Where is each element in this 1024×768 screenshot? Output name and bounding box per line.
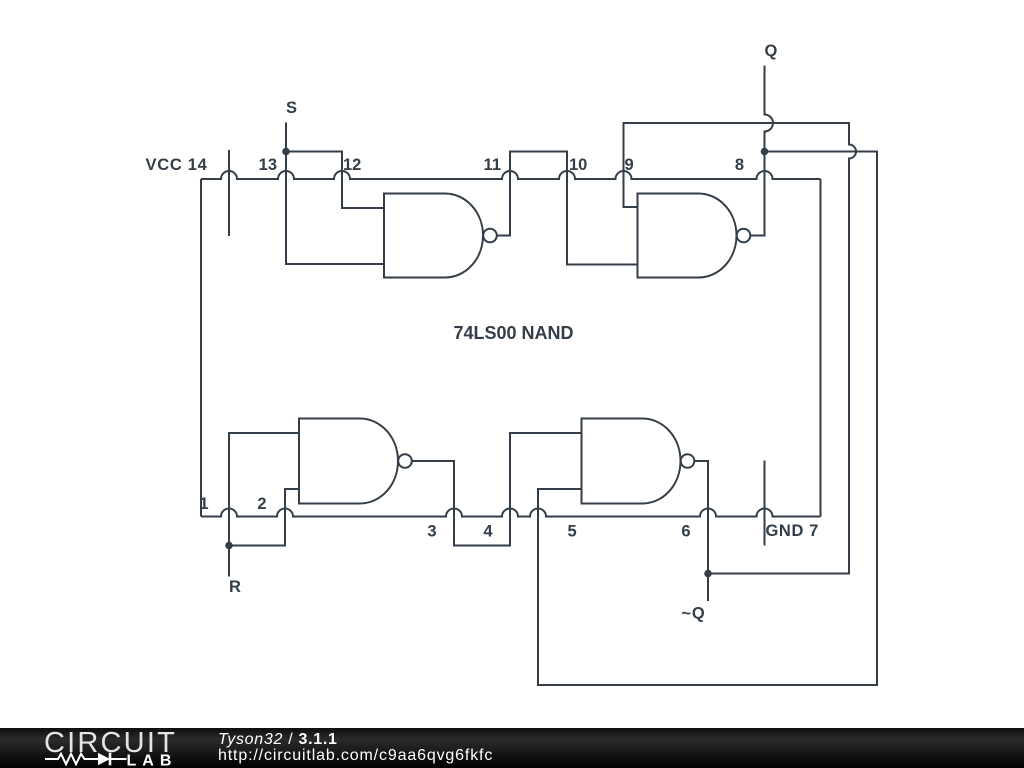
IC U1 package outline: right edge <box>820 179 822 517</box>
junction node R at pin 1 <box>225 542 233 550</box>
svg-text:13: 13 <box>259 156 277 174</box>
footer title text <box>218 732 338 748</box>
junction node S at pin 13 <box>282 148 290 156</box>
wire U1A output to pin 11, over to pin 10, down to U1B lower input <box>497 152 638 265</box>
svg-text:2: 2 <box>257 495 266 513</box>
NAND gate U1C output bubble <box>398 454 412 468</box>
svg-text:10: 10 <box>569 156 587 174</box>
wire S junction over to pin 12 and U1A upper input <box>286 152 384 209</box>
svg-text:8: 8 <box>735 156 744 174</box>
svg-text:VCC 14: VCC 14 <box>146 156 208 174</box>
footer bar <box>0 728 1024 768</box>
svg-text:6: 6 <box>681 523 690 541</box>
svg-text:R: R <box>229 578 241 596</box>
NAND gate U1B output bubble <box>737 229 751 243</box>
wire ~Q feedback right side up to pin 9 and U1B upper input <box>624 123 857 574</box>
CircuitLab logo <box>0 728 200 768</box>
NAND gate U1D output bubble <box>681 454 695 468</box>
svg-text:Q: Q <box>765 42 778 60</box>
svg-text:5: 5 <box>568 523 577 541</box>
IC U1 package outline: left edge <box>200 179 202 517</box>
NAND gate U1B body (top-right) <box>638 194 737 278</box>
wire U1C output down through pin 3, over to pin 4, up to U1D upper input <box>412 433 582 546</box>
wire GND stub through pin 7 <box>764 461 766 546</box>
wire Q feedback from pin 8 junction right, down and back to pin 5 / U1D lower input <box>538 152 877 686</box>
svg-text:GND 7: GND 7 <box>766 522 819 540</box>
IC U1 74LS00 package outline: top edge with pin hops 14,13,12,11,10,9,8 <box>201 171 821 179</box>
NAND gate U1D body (bottom-right) <box>582 419 681 504</box>
svg-text:12: 12 <box>343 156 361 174</box>
wire node R up through pin 1 to U1C upper input <box>229 433 299 577</box>
NAND gate U1C body (bottom-left) <box>299 419 398 504</box>
wire U1B output up through pin 8 to node Q with hop <box>751 66 774 236</box>
footer url text <box>218 748 493 764</box>
svg-text:74LS00 NAND: 74LS00 NAND <box>453 323 573 343</box>
svg-text:1: 1 <box>199 495 208 513</box>
svg-text:11: 11 <box>484 156 501 174</box>
wire node S down through pin 13 to U1A lower input <box>286 123 384 265</box>
wire VCC stub through pin 14 <box>228 150 230 236</box>
svg-text:3: 3 <box>427 523 436 541</box>
svg-text:9: 9 <box>625 156 634 174</box>
junction node ~Q at pin 6 <box>704 570 712 578</box>
svg-text:LAB: LAB <box>127 753 178 768</box>
wire U1D output down through pin 6 to node ~Q <box>695 461 709 601</box>
junction node Q at pin 8 <box>761 148 769 156</box>
svg-text:~Q: ~Q <box>681 605 705 623</box>
NAND gate U1A body (top-left) <box>384 194 483 278</box>
svg-text:S: S <box>286 99 297 117</box>
IC U1 74LS00 package outline: bottom edge with pin hops 1,2,3,4,5,6,7 <box>201 509 821 517</box>
wire R junction over to pin 2 and U1C lower input <box>229 489 299 546</box>
svg-text:4: 4 <box>483 523 493 541</box>
NAND gate U1A output bubble <box>483 229 497 243</box>
